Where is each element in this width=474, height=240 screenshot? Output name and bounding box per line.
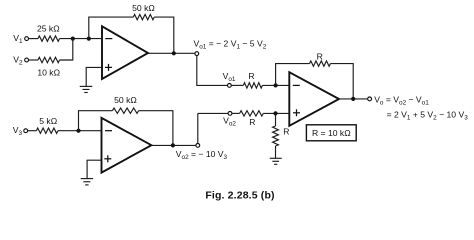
svg-text:R: R — [317, 51, 323, 61]
junction U1 output/feedback — [172, 51, 176, 55]
wire U1 output — [148, 52, 195, 54]
junction V1/V2 — [71, 37, 75, 41]
wire R to noninverting U3 — [263, 112, 289, 114]
wire feedback U2 right — [139, 111, 173, 146]
value box R = 10 kOhm — [306, 125, 356, 141]
wire noninverting U2 to ground — [87, 160, 101, 178]
resistor 25 kOhm — [37, 24, 60, 42]
resistor 10 kOhm — [37, 57, 60, 77]
ground (U1) — [80, 86, 93, 92]
resistor 5 kOhm — [36, 116, 58, 133]
svg-text:V1: V1 — [13, 33, 23, 45]
wire R10k up to junction — [60, 39, 73, 60]
resistor 50 kOhm (U1 feedback) — [132, 3, 155, 20]
junction feedback tap U2 — [76, 129, 80, 133]
wire R to inverting input U3 — [262, 84, 289, 86]
svg-text:R = 10 kΩ: R = 10 kΩ — [312, 128, 351, 138]
wire R to ground — [275, 146, 277, 158]
svg-text:R: R — [283, 126, 289, 136]
wire to R (row1) — [231, 84, 243, 86]
wire noninverting U1 to ground — [86, 67, 102, 86]
wire V3 to R 5k — [28, 130, 37, 132]
svg-text:V2: V2 — [13, 54, 23, 66]
wire V2 to R 10k — [29, 59, 39, 61]
svg-text:Vo = Vo2 − Vo1: Vo = Vo2 − Vo1 — [374, 94, 429, 106]
svg-text:50 kΩ: 50 kΩ — [114, 95, 137, 105]
svg-text:R: R — [248, 71, 254, 81]
node Vo1 terminal — [195, 52, 199, 56]
wire feedback U3 right — [330, 64, 353, 99]
resistor 50 kOhm (U2 feedback) — [112, 95, 138, 113]
svg-text:25 kΩ: 25 kΩ — [37, 24, 60, 34]
wire feedback U3 left/top — [276, 64, 310, 86]
op-amp U2 — [102, 118, 152, 173]
wire feedback U1 left/top — [89, 17, 134, 38]
wire U3 output — [339, 98, 368, 100]
node V3 — [13, 125, 28, 137]
wire Vo2 up to row2 — [197, 113, 199, 143]
node Vo2 terminal — [196, 144, 200, 148]
resistor R (U3 feedback) — [310, 51, 331, 66]
wire Vo1 down to summing row — [197, 56, 228, 86]
svg-text:Vo2: Vo2 — [223, 116, 236, 128]
svg-text:50 kΩ: 50 kΩ — [132, 3, 155, 13]
junction feedback tap U1 — [87, 37, 91, 41]
resistor R (row1) — [243, 71, 262, 88]
svg-text:10 kΩ: 10 kΩ — [37, 67, 60, 77]
wire Vo2 row to R — [198, 112, 228, 114]
svg-text:Vo1: Vo1 — [223, 71, 236, 83]
op-amp U3 — [289, 72, 339, 126]
wire V1 to R 25k — [29, 38, 39, 40]
node Vo2 (second terminal) — [223, 112, 236, 128]
node V1 — [13, 33, 28, 45]
node Vo terminal — [368, 97, 372, 101]
svg-text:5 kΩ: 5 kΩ — [39, 116, 57, 126]
wire — [232, 112, 240, 114]
wire feedback U1 right — [154, 17, 174, 53]
node V2 — [13, 54, 28, 66]
wire R5k to inverting input U2 — [58, 130, 102, 132]
svg-text:Vo1 = − 2 V1 − 5 V2: Vo1 = − 2 V1 − 5 V2 — [194, 39, 267, 51]
wire feedback U2 left/top — [79, 111, 113, 131]
junction U3 output/feedback — [351, 97, 355, 101]
svg-text:R: R — [249, 117, 255, 127]
junction inverting U3 — [274, 83, 278, 87]
op-amp U1 — [102, 26, 148, 79]
resistor R (row2) — [240, 111, 264, 128]
ground (U2) — [81, 179, 93, 185]
ground (U3 divider) — [270, 158, 282, 164]
svg-text:Vo2 = − 10 V3: Vo2 = − 10 V3 — [176, 149, 228, 161]
wire junction down to R — [275, 113, 277, 126]
wire U2 output — [151, 144, 196, 146]
junction U2 output/feedback — [171, 143, 175, 147]
junction noninverting U3 — [273, 111, 277, 115]
svg-text:= 2 V1 + 5 V2 − 10 V3: = 2 V1 + 5 V2 − 10 V3 — [387, 109, 469, 121]
resistor R (to ground) — [273, 126, 290, 146]
wire R25k to inverting input U1 — [60, 38, 103, 40]
svg-text:Fig. 2.28.5 (b): Fig. 2.28.5 (b) — [205, 189, 274, 201]
svg-text:V3: V3 — [13, 125, 23, 137]
node Vo1 (second terminal) — [223, 71, 236, 87]
